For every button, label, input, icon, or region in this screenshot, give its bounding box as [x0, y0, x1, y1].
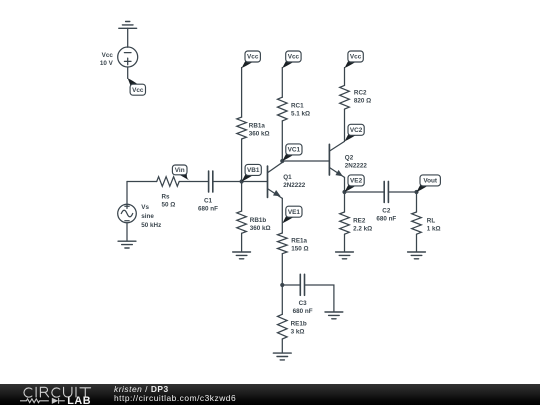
resistor RE1b	[278, 314, 288, 339]
wire C1 to Q1 base	[213, 181, 267, 183]
node flag VB1 (flagVB1)	[242, 164, 262, 181]
label C3 680nF	[293, 300, 313, 315]
node flag Vcc (flag4)	[345, 51, 364, 68]
resistor RL	[412, 212, 422, 234]
ground right of C3	[325, 312, 343, 319]
svg-text:VE2: VE2	[350, 178, 363, 185]
node flag VE1 (flagVE1)	[282, 206, 302, 223]
wire VE2 to RE2	[344, 192, 346, 212]
wire Vcc flag to RC2	[344, 68, 346, 86]
ground above Vcc source	[119, 22, 137, 29]
footer credit text	[114, 385, 236, 404]
wire VB1 node to RB1b	[241, 182, 243, 212]
wire VE2 to C2	[345, 191, 384, 193]
ground below RB1b	[233, 252, 251, 259]
label RL 1k	[427, 217, 441, 232]
wire RE1a to C3 node	[281, 254, 283, 285]
resistor RB1b	[237, 211, 247, 233]
label RB1a 360k	[249, 123, 270, 138]
node flag Vin (flagVin)	[172, 165, 190, 181]
svg-text:C3: C3	[299, 300, 308, 307]
node flag Vcc (flag1)	[128, 78, 146, 95]
wire RB1a to VB1 node	[241, 139, 243, 182]
wire ground to Vcc source	[127, 28, 129, 47]
svg-text:1 kΩ: 1 kΩ	[427, 225, 441, 232]
wire C3 to ground corner	[305, 285, 334, 312]
svg-text:Vcc: Vcc	[132, 87, 144, 94]
footer bar	[0, 384, 540, 405]
CircuitLab logo	[0, 384, 110, 405]
voltage source Vcc 10V	[118, 47, 138, 67]
label Q2 2N2222	[345, 154, 368, 169]
wire VC1 to Q2 base	[282, 160, 329, 162]
svg-text:C1: C1	[204, 197, 213, 204]
node flag VC1 (flagVC1)	[282, 144, 302, 161]
svg-text:50 Ω: 50 Ω	[162, 201, 176, 208]
svg-text:Vin: Vin	[175, 167, 185, 174]
ground below RE1b	[273, 353, 291, 360]
svg-text:Vcc: Vcc	[102, 52, 114, 59]
svg-text:50 kHz: 50 kHz	[141, 222, 161, 229]
node flag Vout (flagVout)	[417, 175, 441, 192]
wire Vcc source to flag	[127, 67, 129, 78]
wire RC1 to VC1 node	[281, 121, 283, 161]
transistor Q2 2N2222	[329, 141, 344, 177]
svg-text:RE1a: RE1a	[291, 237, 307, 244]
svg-text:5.1 kΩ: 5.1 kΩ	[291, 111, 310, 118]
svg-text:Vout: Vout	[423, 178, 438, 185]
svg-text:Vcc: Vcc	[350, 54, 362, 61]
svg-text:Vcc: Vcc	[247, 54, 259, 61]
wire node to C3	[282, 284, 300, 286]
wire Vout to RL	[416, 192, 418, 212]
svg-text:RC1: RC1	[291, 103, 304, 110]
svg-text:150 Ω: 150 Ω	[291, 245, 308, 252]
svg-text:RC2: RC2	[354, 89, 367, 96]
resistor RE2	[340, 212, 350, 234]
label RE1b 3k	[291, 320, 307, 335]
svg-text:VC2: VC2	[350, 127, 363, 134]
capacitor C3	[300, 274, 304, 295]
resistor RC2	[340, 85, 350, 109]
svg-text:10 V: 10 V	[100, 60, 114, 67]
wire node to RE1b	[281, 285, 283, 314]
label RE1a 150	[291, 237, 308, 252]
svg-text:RB1a: RB1a	[249, 123, 266, 130]
wire Q2 emitter to VE2 node	[344, 177, 346, 192]
svg-text:RL: RL	[427, 217, 436, 224]
svg-text:Q2: Q2	[345, 154, 354, 161]
wire Vcc flag to RC1	[281, 68, 283, 98]
svg-text:Vs: Vs	[141, 204, 149, 211]
wire Vs to ground	[126, 223, 128, 241]
label Vs sine 50 kHz	[141, 204, 161, 229]
node flag VC2 (flagVC2)	[345, 124, 365, 141]
resistor RC1	[278, 97, 288, 121]
wire RB1b to ground	[241, 233, 243, 252]
svg-text:680 nF: 680 nF	[198, 205, 218, 212]
svg-text:VC1: VC1	[288, 147, 301, 154]
svg-text:Q1: Q1	[283, 174, 292, 181]
wire Vcc flag to RB1a	[241, 68, 243, 118]
svg-text:Rs: Rs	[162, 193, 171, 200]
wire RC2 to VC2 flag	[344, 109, 346, 141]
wire Vs to main node	[126, 182, 128, 205]
svg-text:360 kΩ: 360 kΩ	[249, 131, 270, 138]
capacitor C2	[384, 181, 388, 202]
wire Rs to C1	[179, 181, 208, 183]
svg-text:C2: C2	[382, 207, 391, 214]
label Q1 2N2222	[283, 174, 306, 189]
svg-text:2N2222: 2N2222	[283, 182, 306, 189]
svg-text:820 Ω: 820 Ω	[354, 97, 371, 104]
resistor RE1a	[278, 233, 288, 254]
label RC2 820	[354, 89, 371, 104]
node VE2 junction	[342, 190, 346, 194]
ground below Vs	[118, 241, 136, 248]
node Vout junction	[414, 190, 418, 194]
svg-text:sine: sine	[141, 213, 154, 220]
svg-text:Vcc: Vcc	[288, 54, 300, 61]
ground below RL	[408, 252, 426, 259]
svg-text:3 kΩ: 3 kΩ	[291, 328, 305, 335]
resistor RB1a	[237, 117, 247, 139]
ground below RE2	[336, 252, 354, 259]
resistor Rs	[157, 177, 180, 187]
label C2 680nF	[376, 207, 396, 222]
label C1 680nF	[198, 197, 218, 212]
svg-text:360 kΩ: 360 kΩ	[250, 225, 271, 232]
wire RE1b to ground	[281, 339, 283, 353]
label RE2 2.2k	[353, 217, 372, 232]
wire Vs node to Rs	[127, 181, 157, 183]
wire Q1 emitter to RE1a	[281, 198, 283, 233]
wire RL to ground	[416, 234, 418, 252]
svg-text:VB1: VB1	[247, 167, 260, 174]
label RC1 5.1k	[291, 103, 310, 118]
node VB1 junction	[240, 179, 244, 183]
svg-text:RB1b: RB1b	[250, 217, 267, 224]
wire RE2 to ground	[344, 234, 346, 252]
svg-text:RE1b: RE1b	[291, 320, 307, 327]
svg-text:680 nF: 680 nF	[293, 308, 313, 315]
svg-text:2.2 kΩ: 2.2 kΩ	[353, 225, 372, 232]
svg-text:VE1: VE1	[288, 209, 301, 216]
transistor Q1 2N2222	[268, 161, 283, 198]
label RB1b 360k	[250, 217, 271, 232]
node C3 junction	[280, 283, 284, 287]
node flag Vcc (flag2)	[242, 51, 261, 68]
source Vs sine	[118, 204, 137, 223]
node VC1 junction	[280, 159, 284, 163]
svg-text:RE2: RE2	[353, 217, 366, 224]
wire C2 to Vout node	[389, 191, 417, 193]
label Vcc source value	[100, 52, 114, 67]
svg-text:2N2222: 2N2222	[345, 162, 368, 169]
label Rs 50	[162, 193, 176, 208]
capacitor C1	[209, 171, 213, 192]
node flag Vcc (flag3)	[282, 51, 301, 68]
node flag VE2 (flagVE2)	[345, 175, 365, 192]
svg-text:680 nF: 680 nF	[376, 215, 396, 222]
svg-text:LAB: LAB	[67, 395, 91, 405]
